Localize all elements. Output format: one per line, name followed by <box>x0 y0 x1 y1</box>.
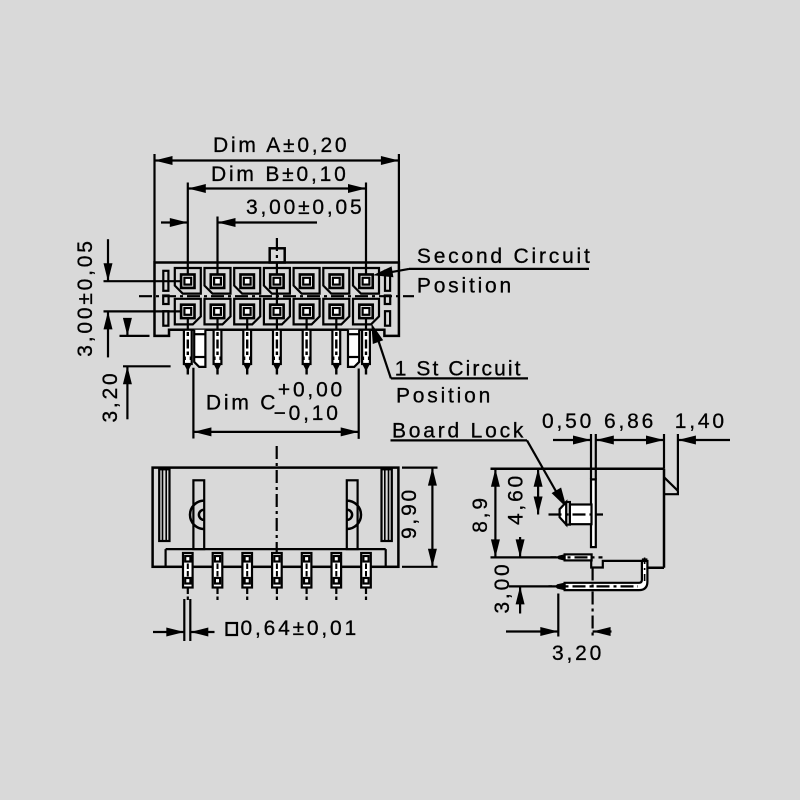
pin contact square bottom row position 7 <box>359 305 372 318</box>
pin contact square top row position 5 <box>300 275 313 288</box>
svg-text:8,9: 8,9 <box>469 495 492 533</box>
dimension 3,20 side view <box>557 594 559 637</box>
board lock screw shank <box>570 505 592 525</box>
pin shank in cavity position 7 <box>365 318 367 329</box>
svg-text:3,20: 3,20 <box>99 370 122 422</box>
svg-text:4,60: 4,60 <box>504 473 527 525</box>
chamfered latch top right <box>664 477 678 494</box>
pin contact square bottom row position 5 <box>300 305 313 318</box>
pin shank in cavity position 1 <box>187 318 189 329</box>
svg-text:Position: Position <box>417 275 514 298</box>
svg-text:Second Circuit: Second Circuit <box>417 245 593 268</box>
svg-text:Board Lock: Board Lock <box>392 420 526 443</box>
solder pin bottom view position 6 <box>332 553 342 588</box>
pin contact square top row position 4 <box>270 275 283 288</box>
connector body front view outline <box>155 263 399 336</box>
dimension Dim C +0,00 -0,10 <box>192 368 194 439</box>
side wall rib left <box>159 469 169 541</box>
pin contact square top row position 2 <box>211 275 224 288</box>
dimension Dim A±0,20 <box>153 154 155 262</box>
contact cavity top row position 3 <box>234 268 260 294</box>
dimension 1,40 <box>677 434 679 490</box>
dimension 4,60 <box>537 469 539 515</box>
dimension 8,9 <box>491 556 557 558</box>
svg-text:−0,10: −0,10 <box>274 402 341 425</box>
bent lower solder pin side view <box>565 561 648 590</box>
contact cavity bottom row position 1 <box>175 299 201 325</box>
pin shank in cavity position 3 <box>246 318 248 329</box>
connector body bottom view outline <box>153 468 399 567</box>
dimension 0,50 <box>590 434 592 479</box>
board lock blade right bottom view <box>347 480 358 549</box>
contact cavity top row position 2 <box>205 268 231 294</box>
bottom view base strip <box>166 548 386 550</box>
pin contact square top row position 6 <box>330 275 343 288</box>
side view body block <box>491 467 665 470</box>
pin contact square bottom row position 1 <box>181 305 194 318</box>
pin contact square bottom row position 4 <box>270 305 283 318</box>
solder pin front view position 6 <box>332 330 340 364</box>
solder pin front view position 3 <box>243 330 251 364</box>
svg-text:6,86: 6,86 <box>604 410 656 433</box>
vertical centerline (front view through bottom view) <box>276 238 278 262</box>
solder pin front view position 2 <box>214 330 222 364</box>
dimension 6,86 <box>596 439 664 441</box>
board lock screw head side view <box>560 502 567 525</box>
contact cavity top row position 6 <box>323 268 349 294</box>
contact cavity top row position 5 <box>294 268 320 294</box>
contact cavity top row position 4 <box>264 268 290 294</box>
pin shank in cavity position 4 <box>276 318 278 329</box>
svg-text:Dim A±0,20: Dim A±0,20 <box>213 134 349 157</box>
svg-text:3,00±0,05: 3,00±0,05 <box>74 238 97 356</box>
svg-text:Position: Position <box>396 385 493 408</box>
dimension 3,20 pin length <box>120 335 150 337</box>
svg-text:0,64±0,01: 0,64±0,01 <box>241 617 359 640</box>
solder pin bottom view position 3 <box>242 553 252 588</box>
pin contact square bottom row position 2 <box>211 305 224 318</box>
solder pin bottom view position 1 <box>183 553 193 588</box>
contact cavity bottom row position 5 <box>294 299 320 325</box>
center column through line <box>276 263 278 275</box>
board lock tab right front view <box>348 330 359 367</box>
contact cavity bottom row position 6 <box>323 299 349 325</box>
leader to second circuit position pin <box>383 269 409 274</box>
bent pin centerline <box>549 585 639 587</box>
pcb mounting plate side view <box>591 479 596 547</box>
body under-step contour <box>591 560 642 567</box>
leader to board lock screw <box>527 440 560 497</box>
svg-text:Dim C: Dim C <box>206 391 278 414</box>
solder pin front view position 5 <box>303 330 311 364</box>
contact cavity bottom row position 7 <box>353 299 379 325</box>
screw centerline <box>549 513 604 515</box>
contact cavity bottom row position 4 <box>264 299 290 325</box>
svg-text:3,20: 3,20 <box>552 642 604 665</box>
pin contact square top row position 1 <box>181 275 194 288</box>
contact cavity bottom row position 2 <box>205 299 231 325</box>
board lock blade left bottom view <box>193 480 204 549</box>
pin contact square top row position 3 <box>241 275 254 288</box>
dimension 9,90 <box>402 467 438 469</box>
dimension 3,00±0,05 vertical row pitch <box>104 280 181 282</box>
solder pin front view position 4 <box>273 330 281 364</box>
solder pin bottom view position 5 <box>302 553 312 588</box>
svg-text:1,40: 1,40 <box>675 410 727 433</box>
solder pin bottom view position 7 <box>361 553 371 588</box>
board lock rivet right <box>347 501 361 529</box>
upper solder pin side view <box>565 554 592 560</box>
pin contact square bottom row position 6 <box>330 305 343 318</box>
leader to 1st circuit position pin <box>376 332 391 378</box>
contact cavity bottom row position 3 <box>234 299 260 325</box>
pin shank in cavity position 2 <box>216 318 218 329</box>
board lock tab left front view <box>194 330 205 367</box>
upper pin centerline <box>551 556 603 558</box>
dimension 3,00 side view <box>509 585 552 587</box>
svg-text:3,00: 3,00 <box>491 561 514 613</box>
svg-text:+0,00: +0,00 <box>278 379 345 402</box>
horizontal centerline front view <box>139 295 414 297</box>
keying slots right edge <box>385 271 390 291</box>
pin shank in cavity position 5 <box>306 318 308 329</box>
dimension 3,00±0,05 pitch <box>216 217 218 275</box>
board lock rivet left <box>190 501 204 529</box>
keying slots left edge <box>163 271 168 291</box>
side wall rib right <box>382 469 392 541</box>
svg-text:3,00±0,05: 3,00±0,05 <box>246 196 364 219</box>
polarization tab top center <box>270 248 285 262</box>
centerline below plate <box>591 568 593 637</box>
contact cavity top row position 7 <box>353 268 379 294</box>
pin shank in cavity position 6 <box>335 318 337 329</box>
svg-text:9,90: 9,90 <box>398 487 421 539</box>
contact cavity top row position 1 <box>175 268 201 294</box>
solder pin bottom view position 4 <box>272 553 282 588</box>
solder pin front view position 7 <box>362 330 370 364</box>
pin contact square bottom row position 3 <box>241 305 254 318</box>
solder pin bottom view position 2 <box>213 553 223 588</box>
solder pin front view position 1 <box>184 330 192 364</box>
svg-text:0,50: 0,50 <box>542 410 594 433</box>
svg-text:Dim B±0,10: Dim B±0,10 <box>211 163 349 186</box>
dimension square 0,64±0,01 <box>183 599 185 641</box>
pin contact square top row position 7 <box>359 275 372 288</box>
dimension Dim B±0,10 <box>187 183 189 275</box>
svg-text:1 St Circuit: 1 St Circuit <box>395 358 523 381</box>
